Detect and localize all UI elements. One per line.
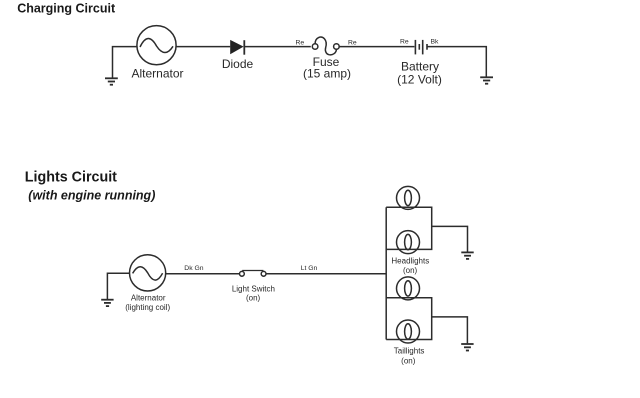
svg-text:Re: Re (348, 39, 357, 46)
svg-text:(15 amp): (15 amp) (303, 66, 351, 80)
svg-text:Dk Gn: Dk Gn (184, 265, 203, 272)
svg-text:Headlights: Headlights (391, 256, 429, 265)
svg-text:Lights Circuit: Lights Circuit (25, 169, 117, 185)
svg-text:Battery: Battery (401, 59, 439, 73)
svg-text:(with engine running): (with engine running) (28, 188, 155, 202)
svg-text:Alternator: Alternator (131, 293, 166, 302)
svg-text:(on): (on) (403, 266, 418, 275)
svg-text:Diode: Diode (222, 57, 254, 71)
svg-text:Light Switch: Light Switch (232, 285, 275, 294)
svg-text:Charging Circuit: Charging Circuit (17, 2, 116, 16)
svg-text:(lighting coil): (lighting coil) (125, 303, 170, 312)
svg-text:Lt Gn: Lt Gn (301, 265, 318, 272)
svg-text:Bk: Bk (431, 38, 440, 45)
svg-text:Alternator: Alternator (131, 67, 183, 81)
svg-text:(on): (on) (401, 357, 416, 366)
svg-text:(on): (on) (246, 294, 261, 303)
svg-text:Taillights: Taillights (394, 347, 425, 356)
svg-text:Re: Re (296, 39, 305, 46)
svg-text:(12 Volt): (12 Volt) (397, 73, 442, 87)
svg-text:Re: Re (400, 38, 409, 45)
